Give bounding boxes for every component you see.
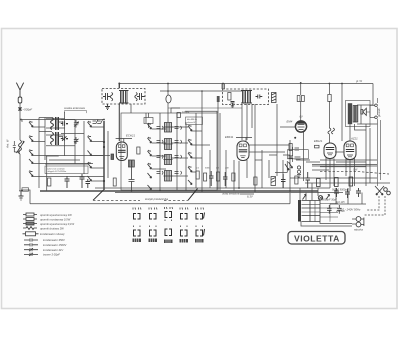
wire box top component bbox=[171, 108, 180, 113]
switch contact S4e bbox=[188, 180, 192, 185]
svg-text:kondensator 1500V: kondensator 1500V bbox=[43, 243, 67, 247]
magic eye electrodes bbox=[298, 125, 305, 130]
speaker terminal top bbox=[375, 104, 378, 107]
power transformer windings bbox=[302, 201, 321, 222]
label frame VIOLETTA bbox=[288, 232, 345, 245]
wire antenna tap bus bbox=[22, 119, 104, 121]
filter cap C26 bbox=[327, 205, 332, 214]
capacitor C8 in box1 bbox=[103, 93, 111, 100]
wire middle box top feed bbox=[131, 84, 168, 123]
capacitor C20 bbox=[306, 172, 311, 188]
trimmer C2 bbox=[61, 121, 68, 125]
coil L3 with core bbox=[51, 132, 59, 145]
small rect on box top bbox=[177, 113, 180, 118]
transformer T1 in box1 bbox=[119, 91, 129, 104]
tube V4 anodes bbox=[346, 144, 349, 147]
potentiometer P1 bbox=[285, 162, 293, 170]
small label box mid bbox=[186, 117, 203, 125]
switch contact S3a bbox=[148, 123, 152, 129]
switch contact S3f bbox=[148, 185, 152, 190]
tube V2 grids bbox=[239, 150, 247, 152]
svg-text:5000: 5000 bbox=[205, 168, 211, 170]
wire box top double line bbox=[185, 111, 217, 113]
svg-text:kondensator mikowy: kondensator mikowy bbox=[40, 232, 65, 236]
coupling cap C24 bbox=[217, 96, 220, 102]
resistor R13 bbox=[317, 179, 321, 187]
fuse holder circles bbox=[384, 188, 388, 192]
earth symbol bbox=[19, 191, 24, 200]
legend row8 trimmer symbol bbox=[24, 248, 38, 251]
switch table group2 bbox=[149, 208, 158, 243]
capacitor C7 bbox=[86, 179, 91, 188]
G-LEGEND bbox=[23, 213, 39, 256]
capacitor C ant bbox=[18, 108, 22, 110]
tube V2 anodes bbox=[239, 144, 242, 147]
wire chassis bus bbox=[30, 203, 290, 205]
switch table group4 bbox=[180, 208, 189, 243]
capacitor C17 bbox=[345, 189, 350, 198]
det ground bbox=[297, 175, 301, 178]
legend row1 resistor symbol bbox=[23, 214, 37, 216]
dial lamp bbox=[318, 196, 322, 200]
switch contact S2d bbox=[88, 162, 92, 168]
svg-text:filtr 465 kc: filtr 465 kc bbox=[187, 118, 198, 121]
wire transformer extra windings bbox=[302, 201, 321, 222]
G-TEXT bbox=[6, 79, 382, 257]
resistor R14 bbox=[335, 178, 339, 187]
svg-text:zakres fal srednich: zakres fal srednich bbox=[46, 168, 66, 170]
IF pair r2c2 bbox=[175, 140, 182, 144]
output transformer T3 primary bbox=[348, 103, 352, 124]
switch contact S3d bbox=[148, 163, 152, 169]
wire right extra verticals bbox=[361, 105, 370, 186]
wire heater run bbox=[240, 193, 290, 204]
svg-text:uklad zestykow: uklad zestykow bbox=[222, 192, 241, 196]
capacitor C12 bbox=[223, 172, 228, 186]
switch contact S2a bbox=[88, 121, 92, 127]
wire dashed-box1 drop bbox=[118, 84, 120, 89]
wire spine rungs bbox=[92, 127, 111, 181]
switch contact S1a bbox=[29, 121, 33, 127]
IF pair r1c1 bbox=[157, 126, 164, 130]
svg-text:500pF 5000pF: 500pF 5000pF bbox=[332, 189, 349, 192]
svg-text:wtyczka: wtyczka bbox=[354, 229, 364, 232]
wire coil block frame bbox=[45, 112, 84, 174]
node antenna junction bbox=[19, 108, 21, 110]
resistor R3 bbox=[196, 171, 199, 179]
wire speaker lines bbox=[378, 98, 381, 186]
switch contact S1b bbox=[29, 136, 33, 142]
wire output transformer to rectifier bbox=[350, 124, 366, 141]
svg-text:trymer 3-30pF: trymer 3-30pF bbox=[43, 253, 60, 257]
wire dashed-box1 to tube bbox=[118, 104, 120, 141]
wire det left bbox=[275, 161, 287, 172]
svg-text:opornik drutowy 3W: opornik drutowy 3W bbox=[40, 226, 64, 230]
node below eye bbox=[294, 137, 296, 139]
IF pair r4c1 bbox=[157, 171, 164, 175]
wire V1 shelf bbox=[116, 139, 132, 143]
switch contact S1e bbox=[29, 171, 33, 177]
resistor R8 hatched bbox=[272, 93, 277, 103]
small rect in IF box bbox=[144, 118, 153, 124]
wire bottom right links bbox=[330, 188, 366, 204]
svg-text:opornik wysokoomowy 1W: opornik wysokoomowy 1W bbox=[40, 213, 72, 217]
pot circle a bbox=[297, 166, 300, 169]
capacitor C13 + gnd in box2 bbox=[231, 102, 235, 108]
capacitor C23 osc bbox=[129, 167, 135, 191]
wire shelf line bbox=[168, 107, 242, 109]
wire coil rungs bbox=[46, 119, 75, 191]
wire det rungs bbox=[249, 145, 293, 162]
svg-text:EBL21: EBL21 bbox=[314, 139, 323, 143]
wire antenna feed down bbox=[19, 103, 21, 190]
switch table group1 bbox=[133, 208, 142, 243]
transformer taps bbox=[320, 204, 338, 222]
IF pair r4c2 bbox=[175, 171, 182, 175]
resistor R9 bbox=[289, 144, 292, 151]
power transformer core bbox=[298, 200, 301, 222]
switch arrow left bbox=[303, 195, 307, 200]
resistor R10 bbox=[297, 96, 300, 102]
wire transformer drops bbox=[300, 183, 322, 200]
tube V4 AZ21 bbox=[344, 141, 356, 160]
wire V2 cathode drops bbox=[239, 160, 247, 188]
IF pair r3c1 bbox=[157, 155, 164, 159]
det cap C22 bbox=[295, 157, 301, 159]
tube V1 grids bbox=[118, 150, 126, 152]
double wire IF2 feed bbox=[222, 84, 225, 90]
svg-text:6V: 6V bbox=[300, 115, 303, 119]
legend row5 large box symbol bbox=[23, 233, 39, 235]
resistor R17 hatched bbox=[271, 177, 276, 186]
svg-text:AZ21: AZ21 bbox=[350, 137, 358, 141]
tube V4 cathode bbox=[347, 155, 353, 157]
switch contact S4a bbox=[188, 125, 192, 131]
legend row7 capacitor symbol bbox=[24, 243, 38, 246]
tube V2 EBF11 bbox=[237, 141, 249, 161]
svg-text:kondensator 4kV: kondensator 4kV bbox=[43, 248, 63, 252]
diagonal pointer left bbox=[93, 190, 104, 200]
legend row6 capacitor symbol bbox=[24, 238, 38, 241]
capacitor C25 ant bbox=[13, 141, 20, 152]
svg-text:5000pF 30pF: 5000pF 30pF bbox=[322, 199, 337, 202]
speaker bbox=[361, 108, 367, 115]
resistor R2 bbox=[137, 147, 140, 154]
lightning arrester F1 bbox=[18, 97, 22, 103]
svg-text:EBF11: EBF11 bbox=[225, 135, 234, 139]
G-WIRES bbox=[20, 83, 390, 226]
wire plug leads bbox=[352, 219, 356, 224]
svg-text:opornik wysokoomowy 0,1W: opornik wysokoomowy 0,1W bbox=[40, 222, 75, 226]
switch contact S3e bbox=[148, 173, 152, 178]
wire speaker top link bbox=[357, 105, 378, 124]
antenna bbox=[16, 83, 23, 97]
svg-text:~500pF: ~500pF bbox=[23, 108, 33, 112]
wire left block rungs bbox=[22, 118, 104, 177]
tube V3 EBL21 bbox=[324, 143, 336, 159]
switch contact S1d bbox=[29, 159, 33, 164]
wire bottom ground bus (thick) bbox=[40, 190, 318, 192]
resistor R21 bbox=[315, 145, 320, 148]
resistor R11 bbox=[302, 96, 305, 102]
legend row3 resistor filled symbol bbox=[23, 223, 37, 225]
switch contact S2b bbox=[88, 136, 92, 142]
resistor R5 bbox=[217, 172, 220, 181]
svg-text:CW: CW bbox=[353, 168, 358, 172]
wire V2 shelf bbox=[236, 138, 252, 142]
wire dashed box2 feed bbox=[223, 84, 242, 141]
wire mains switch drop bbox=[364, 196, 385, 215]
resistor R7 in box2 bbox=[228, 93, 231, 101]
switch contact S4b bbox=[188, 139, 192, 145]
magic eye shadow arc bbox=[297, 121, 306, 123]
wire top small rect drop bbox=[148, 113, 150, 128]
coil L6 osc primary bbox=[129, 160, 132, 167]
tube V1 anodes bbox=[118, 145, 121, 148]
tube V3 cathode bbox=[327, 153, 333, 155]
svg-text:110 125: 110 125 bbox=[336, 201, 345, 204]
dashed pointer line bbox=[93, 199, 188, 201]
capacitor C9 in box1 bbox=[137, 93, 145, 100]
wire magic eye drop bbox=[296, 83, 310, 181]
svg-text:220 240: 220 240 bbox=[335, 210, 345, 213]
G-COMPONENTS bbox=[13, 82, 391, 244]
svg-text:glosnik: glosnik bbox=[377, 108, 381, 117]
pointer under cewka antenowa bbox=[65, 111, 87, 114]
switch table group3 bbox=[164, 207, 173, 243]
electrolytic C10 bbox=[166, 95, 171, 103]
legend row4 zigzag symbol bbox=[23, 227, 37, 230]
speaker terminal bottom bbox=[375, 116, 378, 119]
capacitor C11 bbox=[209, 171, 214, 186]
svg-text:cewka antenowa: cewka antenowa bbox=[64, 106, 85, 110]
middle IF box bbox=[121, 113, 217, 190]
wire speaker terminals bbox=[366, 105, 374, 117]
coil L2 with core bbox=[51, 117, 59, 130]
wire left block vertical bbox=[38, 118, 40, 189]
wire sub bus bbox=[95, 187, 330, 189]
wire double vertical right of IF box bbox=[219, 113, 221, 191]
resistor R12 bbox=[328, 95, 331, 102]
coil stack L9 bbox=[164, 155, 173, 165]
antenna coil L1 bbox=[17, 140, 25, 154]
svg-text:100pF: 100pF bbox=[182, 110, 190, 114]
trimmer pair top left bbox=[93, 119, 103, 123]
svg-text:ECH21: ECH21 bbox=[126, 134, 135, 138]
svg-text:kondensator 350V: kondensator 350V bbox=[43, 238, 65, 242]
G-SWITCH-TABLES bbox=[93, 189, 205, 244]
wire right mid horizontals bbox=[290, 160, 390, 183]
resistor R1 bbox=[48, 178, 51, 186]
wire heater bus bbox=[115, 192, 343, 194]
coil stack L8 bbox=[164, 139, 173, 150]
svg-text:obwod II: obwod II bbox=[187, 122, 196, 124]
capacitor C5 bbox=[65, 176, 70, 188]
IF pair r3c2 bbox=[175, 155, 182, 159]
capacitor C15 bbox=[289, 156, 294, 158]
resistor R4 bbox=[204, 173, 207, 181]
wire output stage drops bbox=[326, 152, 355, 191]
capacitor C18 bbox=[356, 188, 361, 197]
wire earth riser bbox=[21, 190, 30, 204]
IF pair r1c2 bbox=[175, 126, 182, 130]
wire IF section verticals bbox=[146, 91, 234, 191]
resistor R15 bbox=[349, 177, 353, 186]
switch contact S4c bbox=[188, 152, 192, 158]
coil L6 osc secondary bbox=[132, 160, 135, 167]
dashed AVC line right bbox=[320, 172, 389, 174]
trimmer C3 bbox=[61, 136, 68, 141]
tube V2 cathode bbox=[240, 156, 245, 158]
switch contact S3b bbox=[148, 137, 152, 143]
wire det stage verticals bbox=[247, 104, 290, 191]
IF pair r2c1 bbox=[157, 140, 164, 144]
det cap C21 bbox=[295, 148, 300, 150]
switch contact S1c bbox=[29, 150, 33, 156]
wire AVC bus bbox=[160, 90, 242, 92]
coil stack L7 bbox=[164, 123, 173, 133]
band label box bbox=[45, 166, 88, 174]
resistor R20 bbox=[113, 178, 116, 186]
resistor R6 bbox=[232, 173, 235, 181]
node bus junctions bbox=[20, 82, 343, 192]
svg-text:Ant. W: Ant. W bbox=[6, 139, 10, 149]
small label box left bbox=[22, 188, 29, 191]
filter cap C27 bbox=[337, 205, 342, 214]
switch contact S3c bbox=[148, 150, 152, 156]
svg-text:opornik montazowy 0,5W: opornik montazowy 0,5W bbox=[40, 217, 71, 221]
mains switch arrows bbox=[375, 186, 384, 195]
tube V1 ECH21 bbox=[116, 142, 127, 161]
switch contact S2c bbox=[88, 151, 92, 156]
resistor R18 bbox=[295, 176, 298, 184]
wire IF box rungs bbox=[152, 127, 210, 176]
tube V4 filament bbox=[346, 150, 354, 152]
coil L5 in box1 bbox=[135, 93, 137, 101]
coil L11 choke bbox=[328, 128, 335, 134]
wire magic eye left bbox=[280, 126, 295, 128]
padder C4 bbox=[74, 120, 79, 128]
tube V1 cathode bbox=[119, 157, 124, 159]
padder C4b bbox=[74, 137, 79, 144]
legend row2 resistor symbol bbox=[23, 218, 37, 220]
speaker assembly box bbox=[346, 101, 371, 127]
capacitor C19 bbox=[281, 174, 286, 188]
resistor R16 bbox=[254, 177, 257, 185]
wire right horizontals bbox=[306, 162, 377, 170]
capacitor C6 bbox=[80, 174, 85, 188]
mains plug bbox=[356, 217, 361, 222]
output transformer T3 secondary bbox=[353, 106, 358, 123]
svg-text:i dlugich 517-2000m: i dlugich 517-2000m bbox=[47, 171, 67, 173]
svg-text:gl. W: gl. W bbox=[356, 79, 362, 83]
switch contact S2e bbox=[88, 176, 92, 181]
coil L4 in box1 bbox=[110, 93, 112, 101]
tube V3 grids bbox=[326, 148, 334, 150]
switch arrow right bbox=[326, 195, 330, 200]
magic eye EM4 bbox=[295, 121, 306, 132]
svg-text:zestyki przelacznika: zestyki przelacznika bbox=[144, 197, 169, 201]
capacitor C14 in box2 bbox=[256, 95, 263, 99]
wire band box link bbox=[45, 160, 88, 164]
wire det box frame bbox=[287, 150, 308, 159]
wire thick switch spine bbox=[103, 121, 105, 190]
wire mains to plug bbox=[301, 222, 352, 227]
dashed box2 (IF transformer) bbox=[223, 89, 269, 105]
transformer T2 in box2 bbox=[241, 91, 252, 104]
ground under box1 bbox=[105, 104, 110, 110]
switch table group5 bbox=[195, 208, 205, 243]
node spine junctions bbox=[103, 141, 105, 143]
dashed box1 (wave trap) bbox=[102, 89, 145, 105]
wire right HT verticals bbox=[329, 84, 373, 144]
resistor R19 bbox=[111, 154, 114, 160]
diagonal pointer right bbox=[188, 189, 198, 201]
wire top HT bus bbox=[119, 83, 373, 85]
capacitor C16 bbox=[334, 188, 339, 197]
svg-text:VIOLETTA: VIOLETTA bbox=[294, 234, 340, 244]
switch contact S4d bbox=[188, 166, 192, 172]
pot circle b bbox=[297, 170, 300, 173]
svg-text:EM4: EM4 bbox=[287, 120, 293, 124]
coil stack L10 bbox=[164, 171, 173, 182]
legend row9 trimmer symbol bbox=[24, 253, 38, 256]
